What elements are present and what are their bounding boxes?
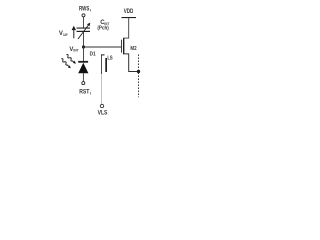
svg-text:RWS: RWS <box>79 6 89 12</box>
junction dot on column line <box>137 70 140 73</box>
column line (dashed) <box>138 55 140 98</box>
wire V_INT to M2 gate <box>84 46 122 48</box>
photodiode D1 cathode bar <box>78 61 88 63</box>
terminal RST_i <box>82 82 85 85</box>
transistor LS gate line with tick <box>101 54 103 74</box>
svg-text:RST: RST <box>79 89 89 95</box>
terminal RWS_i <box>82 14 85 17</box>
svg-text:i: i <box>90 90 91 95</box>
V_CAP arrow <box>72 26 76 39</box>
wire D1 to RST terminal <box>82 73 84 81</box>
svg-text:VDD: VDD <box>124 8 134 15</box>
wire V_INT to D1 <box>83 47 85 61</box>
capacitor C_INT plates <box>77 28 91 29</box>
svg-text:(Pch): (Pch) <box>97 25 109 31</box>
transistor LS channel bar <box>105 58 107 72</box>
wire C_INT to node V_INT <box>83 32 85 47</box>
svg-text:INT: INT <box>73 48 79 53</box>
svg-text:M2: M2 <box>130 46 136 52</box>
photodiode D1 triangle <box>78 63 88 73</box>
wire LS to VLS terminal <box>101 74 103 104</box>
capacitor C_INT variable arrow <box>78 23 90 39</box>
wire M2 drain to VDD <box>124 18 128 38</box>
wire M2 source to column line <box>124 54 138 72</box>
transistor M2 channel bar <box>123 38 124 55</box>
power rail VDD bar <box>122 17 137 18</box>
terminal VLS <box>100 104 103 107</box>
svg-text:LS: LS <box>107 56 112 62</box>
svg-text:i: i <box>90 7 91 12</box>
svg-text:CAP: CAP <box>63 32 68 37</box>
transistor M2 gate bar <box>120 40 123 53</box>
svg-text:VLS: VLS <box>98 110 108 116</box>
node V_INT junction dot <box>82 45 85 48</box>
light arrow 1 <box>66 55 76 64</box>
wire RWS to C_INT <box>83 17 85 28</box>
svg-text:D1: D1 <box>90 51 97 57</box>
light arrow 2 <box>61 59 71 69</box>
